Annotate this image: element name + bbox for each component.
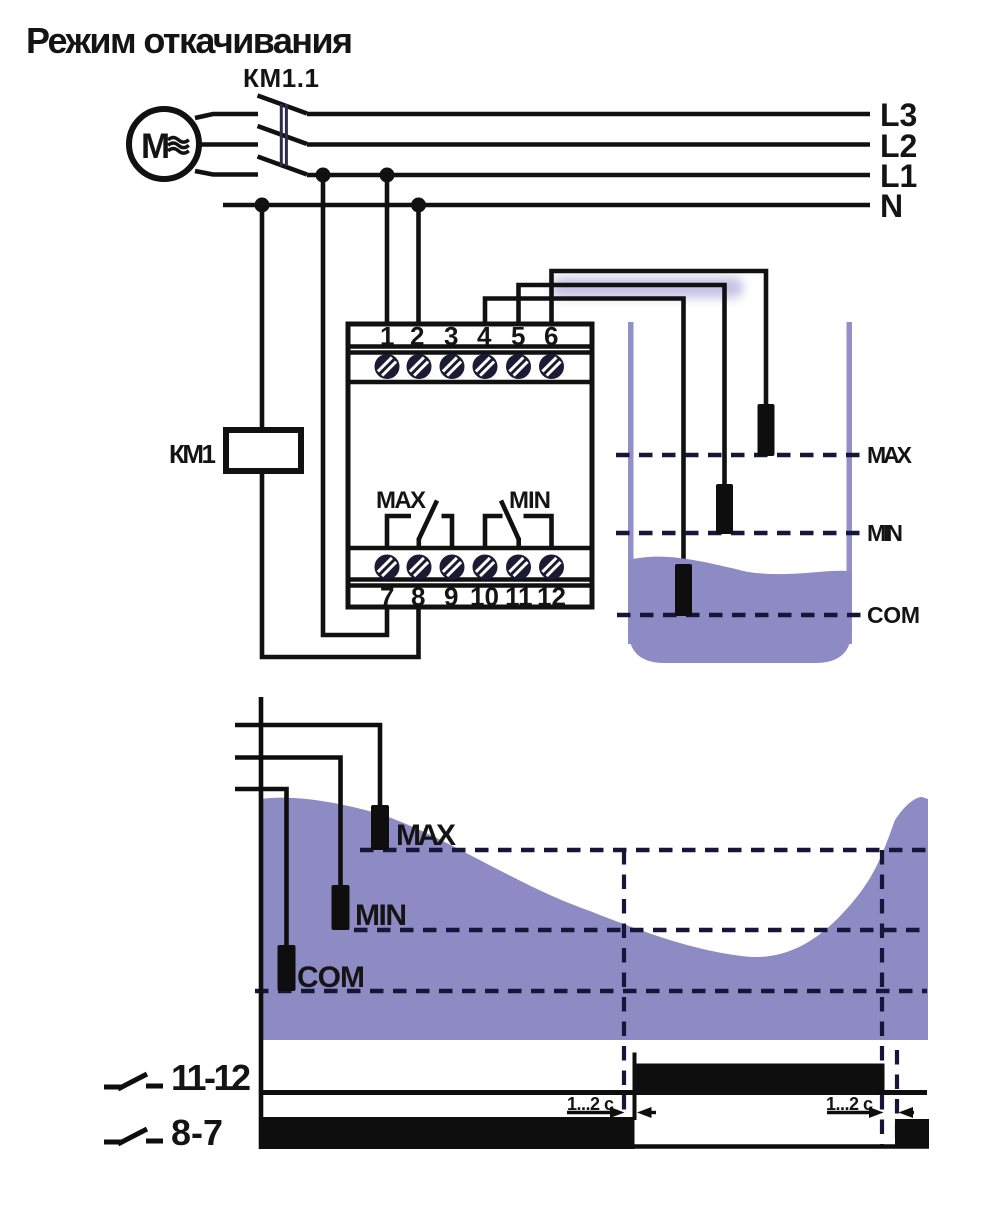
wire motor lead middle: [198, 142, 258, 147]
svg-text:5: 5: [511, 321, 525, 351]
wire terminal 5 to MIN electrode: [519, 285, 725, 484]
motor M: [129, 109, 199, 179]
delay arrow left pair: [567, 1107, 656, 1118]
svg-text:12: 12: [537, 582, 566, 612]
lower wire to COM electrode: [235, 789, 287, 945]
bar 11-12 closed: [635, 1064, 885, 1093]
contact MIN terminals 10-11-12: [485, 501, 552, 549]
line L3: [307, 112, 870, 117]
bar 8-7 closed left: [261, 1117, 635, 1149]
screw terminal 7: [377, 557, 398, 578]
electrode COM (tank): [675, 564, 692, 616]
lower wire to MIN electrode: [235, 758, 341, 886]
svg-text:6: 6: [544, 321, 558, 351]
contact symbol 11-12: [104, 1074, 163, 1089]
svg-text:КМ1: КМ1: [169, 439, 216, 469]
screw terminal 9: [442, 557, 463, 578]
svg-text:COM: COM: [867, 602, 920, 628]
wire L1 to terminal 7: [323, 175, 387, 635]
junction N / KM1 coil: [255, 198, 270, 213]
wire L1 to terminal 1: [385, 175, 390, 322]
contactor KM1.1 linkage bar: [281, 104, 286, 166]
junction N / terminal 2 branch: [411, 198, 426, 213]
wire KM1 coil to terminal 8: [262, 474, 419, 657]
lower electrode MAX: [371, 805, 389, 850]
svg-text:1: 1: [380, 321, 394, 351]
svg-text:10: 10: [470, 582, 499, 612]
screw terminal 2: [409, 356, 430, 377]
svg-text:КМ1.1: КМ1.1: [243, 63, 319, 93]
screw terminal 5: [508, 356, 529, 377]
contactor KM1.1 blade L3: [258, 96, 308, 114]
delay arrow right pair: [827, 1107, 914, 1118]
screw terminal 6: [541, 356, 562, 377]
wire motor lead bottom: [195, 171, 258, 175]
screw terminal 10: [475, 557, 496, 578]
svg-text:8-7: 8-7: [171, 1112, 223, 1153]
svg-text:9: 9: [444, 582, 458, 612]
level line MIN (tank): [616, 531, 862, 535]
line L2: [307, 142, 870, 147]
contactor KM1.1 blade L2: [258, 126, 308, 144]
svg-text:4: 4: [477, 321, 492, 351]
svg-text:2: 2: [410, 321, 424, 351]
svg-text:MAX: MAX: [376, 487, 426, 514]
junction L1 / terminal 7 branch: [316, 168, 331, 183]
screw terminal 3: [442, 356, 463, 377]
svg-text:COM: COM: [297, 961, 365, 994]
lower level line COM: [255, 989, 927, 993]
screw terminal 8: [409, 557, 430, 578]
electrode MAX (tank): [758, 404, 775, 456]
wire motor lead top: [195, 114, 258, 118]
junction L1 / terminal 1 branch: [380, 168, 395, 183]
bar 8-7 closed right: [895, 1119, 929, 1148]
svg-text:MIN: MIN: [509, 487, 551, 514]
time marker dashed at pump start: [622, 850, 626, 1118]
svg-text:Режим откачивания: Режим откачивания: [26, 20, 353, 61]
svg-text:MIN: MIN: [355, 899, 407, 932]
level line MAX (tank): [616, 453, 862, 457]
baseline 11-12: [261, 1090, 927, 1095]
tank right wall: [847, 322, 853, 644]
screw terminal 4: [475, 356, 496, 377]
lower wire to MAX electrode: [235, 725, 380, 805]
lower level line MIN: [354, 928, 927, 932]
wire N to terminal 2: [416, 205, 421, 322]
wire terminal 6 to MAX electrode: [552, 271, 767, 404]
contact MAX terminals 7-8-9: [387, 501, 452, 549]
time marker dashed at MAX reached: [880, 850, 884, 1147]
svg-text:N: N: [880, 188, 903, 224]
svg-text:3: 3: [444, 321, 458, 351]
relay device body: [346, 324, 594, 607]
screw terminal 11: [508, 557, 529, 578]
svg-text:8: 8: [411, 582, 425, 612]
lower well wall line: [259, 697, 264, 1149]
svg-text:MAX: MAX: [867, 442, 913, 468]
svg-text:7: 7: [380, 582, 394, 612]
coil KM1: [226, 430, 301, 471]
line N: [223, 203, 870, 208]
screw terminal 1: [377, 356, 398, 377]
contact symbol 8-7: [104, 1129, 163, 1144]
lower level line MAX: [360, 848, 927, 852]
svg-text:M: M: [141, 127, 170, 166]
tank water: [629, 557, 852, 663]
contactor KM1.1 blade L1: [258, 157, 308, 175]
electrode MIN (tank): [716, 484, 733, 534]
tank left wall: [628, 322, 634, 644]
svg-text:MAX: MAX: [396, 819, 456, 852]
svg-text:11: 11: [505, 582, 533, 612]
level line COM (tank): [617, 613, 862, 617]
lower electrode COM: [278, 945, 296, 991]
screw terminal 12: [541, 557, 562, 578]
svg-text:11-12: 11-12: [171, 1057, 251, 1098]
lower electrode MIN: [332, 885, 350, 930]
baseline 8-7: [261, 1144, 929, 1149]
wire terminal 4 to COM electrode: [485, 299, 684, 565]
lower diagram water: [261, 797, 928, 1040]
time marker dashed at pump restart: [895, 1050, 899, 1138]
wire N to KM1 coil: [260, 205, 265, 428]
svg-text:MIN: MIN: [867, 520, 903, 546]
riser 11-12 bar left edge: [633, 1053, 637, 1121]
line L1: [307, 173, 870, 178]
